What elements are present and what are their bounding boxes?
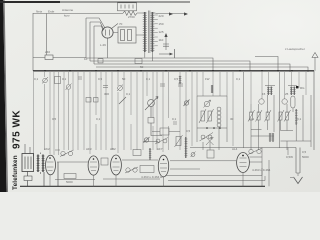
svg-text:0,1: 0,1 [297, 117, 302, 121]
svg-text:70: 70 [119, 22, 123, 26]
svg-text:z.Lautsprecher: z.Lautsprecher [285, 47, 305, 51]
svg-text:975 WK: 975 WK [12, 110, 23, 149]
svg-text:AB2: AB2 [110, 147, 116, 151]
svg-text:0,5: 0,5 [52, 117, 57, 121]
svg-text:AF3: AF3 [86, 147, 92, 151]
svg-text:300: 300 [104, 92, 109, 96]
svg-text:15: 15 [262, 92, 266, 96]
svg-text:Antenne: Antenne [62, 8, 74, 12]
svg-text:1W: 1W [205, 77, 210, 81]
svg-text:AF7: AF7 [157, 147, 163, 151]
svg-text:150: 150 [159, 22, 164, 26]
svg-text:4.463 u.9.464 Hz: 4.463 u.9.464 Hz [141, 175, 164, 179]
svg-text:Telefunken: Telefunken [12, 155, 19, 190]
svg-text:125: 125 [159, 30, 164, 34]
svg-text:0,1: 0,1 [126, 92, 131, 96]
svg-text:2700: 2700 [128, 15, 135, 19]
svg-text:0,5: 0,5 [174, 77, 179, 81]
svg-text:0,1: 0,1 [250, 117, 255, 121]
svg-text:0,1: 0,1 [236, 77, 241, 81]
svg-text:L.29: L.29 [100, 43, 106, 47]
svg-text:0,5: 0,5 [98, 77, 103, 81]
svg-text:AK2: AK2 [44, 147, 50, 151]
svg-text:0,1: 0,1 [172, 117, 177, 121]
svg-text:110: 110 [159, 38, 164, 42]
svg-text:0,5W: 0,5W [286, 155, 293, 159]
svg-text:0,5: 0,5 [302, 150, 307, 154]
svg-text:5000: 5000 [66, 180, 73, 184]
svg-text:4.463 u.9.464: 4.463 u.9.464 [252, 168, 271, 172]
svg-text:0,5: 0,5 [186, 129, 191, 133]
svg-text:240: 240 [45, 50, 50, 54]
svg-text:30: 30 [230, 117, 234, 121]
svg-text:0,1: 0,1 [62, 77, 67, 81]
svg-text:AL4: AL4 [232, 147, 238, 151]
svg-text:25: 25 [285, 92, 289, 96]
svg-text:kurz: kurz [64, 14, 70, 18]
svg-text:RG: RG [300, 86, 305, 90]
svg-text:220: 220 [159, 14, 164, 18]
svg-text:50: 50 [140, 65, 144, 69]
svg-text:0,1: 0,1 [34, 77, 39, 81]
svg-text:10: 10 [84, 57, 88, 61]
svg-text:0,1: 0,1 [96, 117, 101, 121]
svg-text:Netz: Netz [36, 10, 43, 14]
svg-text:50: 50 [122, 77, 126, 81]
svg-text:5000: 5000 [302, 155, 309, 159]
svg-text:0,1: 0,1 [146, 77, 151, 81]
svg-text:Erde: Erde [48, 10, 55, 14]
